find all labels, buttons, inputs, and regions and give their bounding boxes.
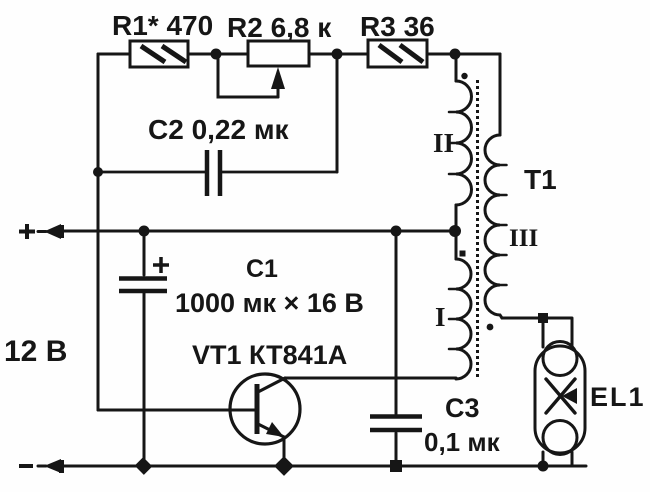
svg-text:R3 36: R3 36 bbox=[360, 11, 435, 42]
T1 winding II bbox=[456, 81, 471, 205]
wire plus rail bbox=[63, 230, 455, 233]
resistor R2 (tuning) bbox=[248, 41, 309, 66]
node T1 center tap bbox=[449, 225, 461, 237]
node C3 bottom bbox=[390, 460, 402, 472]
lamp top pins bbox=[543, 318, 572, 347]
T1 winding III bbox=[485, 135, 502, 318]
node lamp bottom bbox=[538, 461, 549, 472]
T1 winding III lead bbox=[499, 54, 502, 135]
svg-text:T1: T1 bbox=[524, 164, 557, 195]
node junction R2/R3/C2-branch bbox=[332, 49, 343, 60]
capacitor C1 bbox=[143, 231, 146, 466]
wiper arrow of R2 bbox=[277, 88, 280, 97]
resistor R3 bbox=[368, 40, 427, 67]
wire collector to winding I bottom bbox=[285, 377, 456, 380]
lamp bottom electrode bbox=[543, 421, 577, 455]
connector arrow on plus rail bbox=[38, 230, 46, 233]
wire left vertical (R1 left / C2 left / base) bbox=[97, 54, 100, 410]
wire emitter down to rail bbox=[283, 437, 286, 466]
terminal plus bbox=[19, 224, 35, 239]
collector segment bbox=[258, 378, 285, 392]
T1 lead between windings bbox=[455, 205, 458, 259]
lamp X mark bbox=[546, 379, 575, 413]
lamp EL1 tube bbox=[535, 346, 585, 453]
T1 winding I bbox=[456, 259, 471, 379]
wire wiper return loop bbox=[218, 59, 278, 97]
wire R2 to R3 bbox=[309, 53, 368, 56]
wire bottom rail bbox=[63, 465, 586, 468]
svg-text:III: III bbox=[509, 225, 538, 252]
svg-text:12 В: 12 В bbox=[4, 335, 67, 368]
svg-text:C1: C1 bbox=[246, 255, 278, 283]
phasing dot winding II bbox=[461, 73, 467, 79]
wire winding III to lamp bbox=[502, 317, 543, 320]
lamp bottom pins bbox=[543, 452, 572, 466]
node top junction to T1 bbox=[450, 49, 461, 60]
wire R3 to top-right node bbox=[427, 53, 500, 56]
svg-text:II: II bbox=[433, 128, 454, 158]
wire R1 to R2 bbox=[188, 53, 248, 56]
svg-text:VT1 КТ841А: VT1 КТ841А bbox=[192, 340, 347, 370]
lamp top electrode bbox=[543, 342, 577, 376]
wire base wire bbox=[98, 409, 255, 412]
svg-text:0,1 мк: 0,1 мк bbox=[424, 427, 501, 457]
node lamp top bbox=[538, 313, 548, 323]
node emitter rail junction bbox=[274, 456, 294, 476]
capacitor C2 bbox=[98, 171, 337, 174]
resistor R1 bbox=[130, 41, 188, 67]
svg-text:C3: C3 bbox=[445, 393, 480, 423]
svg-text:EL1: EL1 bbox=[590, 382, 646, 412]
svg-text:R1* 470: R1* 470 bbox=[112, 10, 213, 41]
emitter segment with arrow bbox=[258, 424, 284, 437]
phasing dot winding III bbox=[487, 324, 494, 331]
node C1 tap bbox=[139, 226, 150, 237]
wire top bus left corner to R1 bbox=[98, 53, 130, 56]
transformer T1 core bbox=[476, 80, 479, 380]
svg-text:I: I bbox=[435, 302, 446, 332]
svg-text:R2 6,8 к: R2 6,8 к bbox=[227, 12, 332, 43]
node junction R1/R2/wiper bbox=[211, 49, 222, 60]
phasing square winding I bbox=[460, 251, 466, 257]
svg-text:1000 мк × 16 В: 1000 мк × 16 В bbox=[175, 288, 364, 318]
capacitor C3 bbox=[395, 231, 398, 466]
svg-text:C2 0,22 мк: C2 0,22 мк bbox=[148, 114, 290, 145]
transistor VT1 bbox=[230, 374, 300, 444]
T1 winding II lead bbox=[455, 54, 458, 81]
connector arrow on minus rail bbox=[38, 465, 46, 468]
lamp gas triangle bbox=[562, 388, 577, 404]
terminal minus bbox=[19, 464, 33, 468]
plus mark of C1 bbox=[153, 257, 169, 273]
wire node B down to C2 row bbox=[336, 54, 339, 172]
node C3 tap bbox=[391, 226, 402, 237]
node C1 bottom bbox=[135, 457, 153, 475]
node C2 tap on left vertical bbox=[93, 167, 103, 177]
